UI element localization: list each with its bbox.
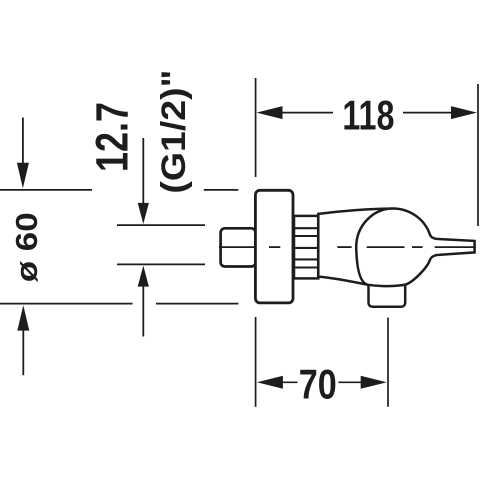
dim o60 extension lines [0, 190, 238, 304]
dim 12.7 up arrow [142, 285, 144, 337]
dim 118 dimension line [278, 112, 456, 114]
dim o60 top arrow [22, 118, 24, 166]
dim 12.7 edge lines [117, 225, 205, 264]
dim 118 arrowheads [257, 106, 478, 119]
dim 70 dimension line [278, 381, 366, 383]
wall connector nut [221, 228, 256, 266]
body cone [318, 209, 393, 285]
ball and lever handle [356, 209, 474, 287]
outlet port [369, 278, 406, 307]
threaded collar [294, 216, 318, 279]
svg-text:ø 60: ø 60 [9, 212, 44, 282]
svg-text:(G1/2)": (G1/2)" [155, 70, 193, 194]
dim 70 arrowheads [257, 376, 387, 389]
dim 70 extension lines [256, 317, 388, 407]
axis centerline [219, 246, 474, 248]
escutcheon plate [255, 190, 293, 303]
collar rib lines [295, 228, 318, 267]
dim 12.7 down arrow [142, 138, 144, 206]
dim 118 extension lines [256, 78, 478, 226]
svg-text:118: 118 [342, 91, 394, 138]
svg-text:12.7: 12.7 [87, 102, 138, 172]
dim o60 bottom arrow [22, 329, 24, 375]
svg-text:70: 70 [299, 360, 337, 407]
